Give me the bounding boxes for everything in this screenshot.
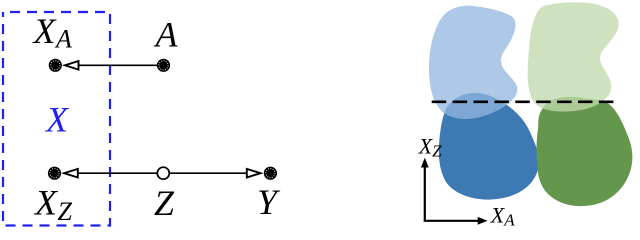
blob dark green (bottom-right cluster) <box>537 97 633 206</box>
svg-text:Z: Z <box>154 183 175 223</box>
wire A to X_A <box>78 64 157 66</box>
blob light blue (top-left cluster) <box>429 6 517 120</box>
node Z (open) <box>157 167 169 179</box>
arrowhead into X_A <box>65 61 79 70</box>
svg-text:XA: XA <box>490 202 515 229</box>
svg-text:XA: XA <box>32 11 73 54</box>
svg-text:X: X <box>44 100 70 140</box>
axis vertical X_Z <box>424 166 426 221</box>
node X_A <box>49 59 62 72</box>
svg-text:XZ: XZ <box>418 134 442 161</box>
arrowhead into X_Z <box>64 169 78 178</box>
svg-text:A: A <box>154 15 179 55</box>
wire Z to X_Z <box>77 172 157 174</box>
blob dark blue (bottom-left cluster) <box>439 93 539 200</box>
node Y <box>264 167 277 180</box>
axis horizontal X_A <box>424 220 479 222</box>
arrowhead into Y <box>247 169 261 178</box>
svg-text:Y: Y <box>257 182 281 222</box>
node A <box>157 59 170 72</box>
node X_Z <box>48 167 61 180</box>
svg-text:XZ: XZ <box>33 182 73 226</box>
blob light green (top-right cluster) <box>528 2 619 111</box>
dashed blue plate X <box>3 12 110 226</box>
wire Z to Y <box>169 172 248 174</box>
dashed separator line <box>432 100 615 103</box>
